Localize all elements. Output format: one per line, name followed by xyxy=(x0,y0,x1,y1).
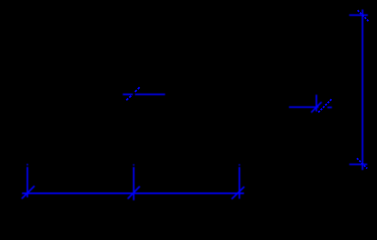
wire: bottom extension line 1 xyxy=(26,167,28,197)
tick: right dimension bottom dashed oblique tick xyxy=(357,158,367,168)
tick: mid-right dashed oblique tick (ghost) xyxy=(318,99,331,112)
tick: mid-left dashed oblique tick lower part (ghost) xyxy=(126,96,131,101)
tick: bottom dimension oblique tick 1 xyxy=(22,186,35,199)
tick: mid-right solid oblique tick xyxy=(311,102,321,112)
node: bottom extension line 2 start dot xyxy=(133,164,135,165)
tick: bottom dimension oblique tick 3 xyxy=(232,187,245,199)
wire: mid-right dimension line xyxy=(289,106,319,108)
tick: bottom dimension oblique tick 2 xyxy=(128,186,140,199)
wire: mid-right extension line xyxy=(315,95,317,112)
wire: mid-left dimension line left segment xyxy=(123,93,133,95)
wire: bottom dimension line xyxy=(22,192,244,194)
tick: right dimension top dashed oblique tick xyxy=(358,10,369,21)
wire: bottom extension line 2 xyxy=(133,167,135,200)
wire: mid-left dimension line right segment xyxy=(135,93,165,95)
node: bottom extension line 1 start dot xyxy=(26,164,28,165)
tick: mid-left dashed oblique tick upper part (ghost) xyxy=(135,86,141,92)
wire: right dimension bottom extension line xyxy=(349,163,367,165)
wire: mid-right dashed dimension line stub (ghost) xyxy=(327,106,332,108)
wire: right dimension top extension line xyxy=(349,14,368,16)
wire: right vertical dimension line xyxy=(362,10,364,171)
wire: bottom extension line 3 xyxy=(238,167,240,199)
node: bottom extension line 3 start dot xyxy=(238,164,240,165)
